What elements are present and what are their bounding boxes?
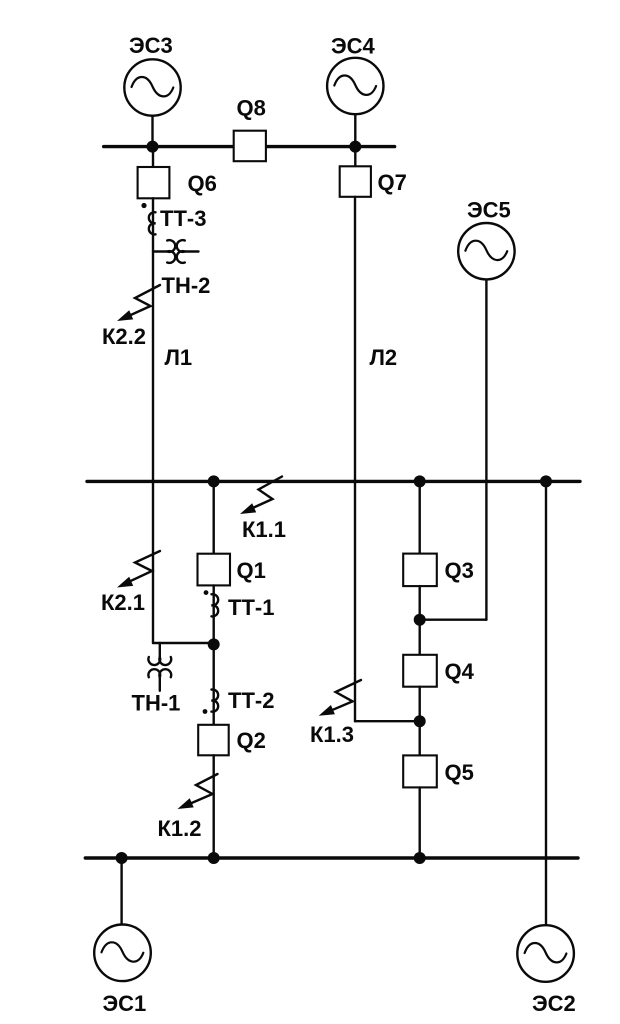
wire Q1 to node — [212, 585, 214, 644]
breaker Q2 — [198, 725, 266, 756]
node middle bus / Q3 branch — [414, 475, 426, 487]
fault К1.2 — [158, 774, 218, 841]
wire ЭС3 stem — [151, 113, 153, 147]
svg-text:Q6: Q6 — [188, 171, 217, 196]
VT ТН-1 — [132, 643, 181, 716]
svg-text:Q4: Q4 — [445, 659, 475, 684]
svg-text:ТН-1: ТН-1 — [132, 691, 181, 716]
wire ЭС2 line — [545, 481, 547, 925]
svg-text:К1.2: К1.2 — [158, 816, 202, 841]
wire Q5 to bottom bus — [419, 787, 421, 858]
wire Q6 down line Л1 — [152, 198, 154, 643]
wire ЭС1 stem — [120, 858, 122, 924]
node top bus / ЭС4 — [349, 141, 361, 153]
breaker Q1 — [198, 554, 266, 586]
VT ТН-2 tap — [153, 240, 210, 298]
svg-text:ТТ-1: ТТ-1 — [228, 595, 274, 620]
generator ЭС2 — [517, 925, 575, 1016]
svg-text:ЭС2: ЭС2 — [532, 991, 576, 1016]
breaker Q3 — [403, 554, 474, 587]
node bottom bus / ЭС1 — [116, 852, 128, 864]
wire middle bus to Q1 — [212, 481, 214, 553]
wire node to Q2 — [212, 644, 214, 724]
svg-text:К1.1: К1.1 — [242, 517, 286, 542]
CT ТТ-1 — [204, 590, 275, 620]
node bottom bus / Q5 branch — [414, 852, 426, 864]
svg-text:К1.3: К1.3 — [310, 722, 354, 747]
generator ЭС4 — [327, 34, 383, 115]
wire node to Q4 — [419, 620, 421, 655]
wire top bus to Q6 — [152, 147, 154, 167]
node middle bus / Q1 branch — [208, 475, 220, 487]
CT ТТ-2 — [203, 688, 275, 714]
generator ЭС5 — [458, 198, 514, 280]
wire Q3 to node — [419, 586, 421, 620]
node Q1 branch / Л1 — [208, 638, 220, 650]
fault К2.2 — [102, 285, 160, 349]
svg-text:Q2: Q2 — [237, 728, 266, 753]
wire node to Q5 — [419, 721, 421, 755]
svg-text:Q1: Q1 — [237, 558, 266, 583]
wire top bus to Q7 — [354, 147, 356, 167]
top busbar — [104, 145, 395, 148]
CT ТТ-3 — [141, 203, 206, 235]
generator ЭС1 — [94, 925, 151, 1017]
node bottom bus / Q2 branch — [208, 852, 220, 864]
svg-text:К2.1: К2.1 — [101, 590, 145, 615]
svg-text:Л2: Л2 — [370, 345, 398, 370]
wire ЭС5 bend to Q3-Q4 node — [420, 619, 487, 621]
svg-text:Q3: Q3 — [445, 558, 474, 583]
node Q3 / ЭС5 — [414, 614, 426, 626]
breaker Q6 — [138, 167, 217, 198]
svg-text:Л1: Л1 — [165, 345, 193, 370]
breaker Q5 — [403, 755, 474, 787]
svg-text:Q7: Q7 — [378, 170, 407, 195]
svg-text:Q5: Q5 — [445, 760, 474, 785]
wire ЭС4 stem — [354, 112, 356, 147]
node Q4 / Л2 — [414, 715, 426, 727]
generator ЭС3 — [124, 33, 180, 116]
svg-text:ТН-2: ТН-2 — [162, 273, 211, 298]
bottom busbar — [85, 856, 578, 859]
wire Q2 to bottom bus — [212, 755, 214, 858]
wire Л2 bend to Q4-Q5 node — [355, 720, 420, 722]
svg-text:ТТ-2: ТТ-2 — [228, 688, 274, 713]
svg-text:ЭС5: ЭС5 — [467, 198, 511, 223]
svg-text:ТТ-3: ТТ-3 — [160, 206, 206, 231]
breaker Q8 — [234, 96, 266, 162]
node middle bus / ЭС2 line — [540, 475, 552, 487]
svg-text:ЭС3: ЭС3 — [129, 33, 173, 58]
wire Л1 bend to Q1 branch — [153, 642, 214, 644]
breaker Q7 — [340, 166, 407, 197]
fault К2.1 — [101, 551, 160, 615]
middle busbar — [87, 480, 580, 483]
node top bus / ЭС3 — [147, 141, 159, 153]
wire Q7 down line Л2 — [354, 197, 356, 721]
breaker Q4 — [403, 655, 474, 687]
svg-text:ЭС4: ЭС4 — [331, 34, 376, 59]
wire middle bus to Q3 — [419, 481, 421, 553]
wire ЭС5 stem down — [485, 280, 487, 620]
svg-text:ЭС1: ЭС1 — [103, 991, 147, 1016]
wire Q4 to node — [419, 687, 421, 722]
fault К1.3 — [310, 680, 361, 747]
svg-text:Q8: Q8 — [237, 96, 266, 121]
svg-text:К2.2: К2.2 — [102, 324, 146, 349]
fault К1.1 — [240, 477, 286, 543]
